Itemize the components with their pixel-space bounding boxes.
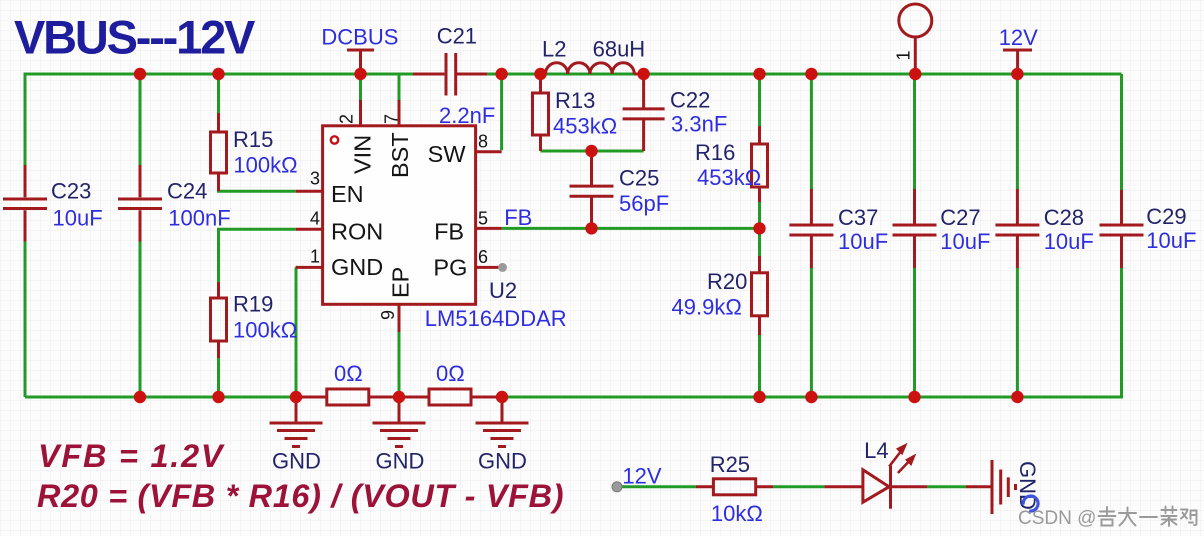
svg-text:8: 8 [478, 132, 488, 152]
svg-text:100kΩ: 100kΩ [233, 153, 297, 178]
svg-text:GND: GND [272, 449, 321, 474]
svg-text:10kΩ: 10kΩ [711, 501, 763, 526]
svg-text:7: 7 [382, 114, 402, 124]
svg-text:EN: EN [331, 181, 364, 207]
svg-text:2: 2 [337, 114, 357, 124]
svg-text:C28: C28 [1044, 205, 1084, 230]
svg-text:C37: C37 [838, 205, 878, 230]
svg-text:1: 1 [894, 50, 914, 60]
svg-text:PG: PG [433, 255, 467, 281]
svg-text:C22: C22 [670, 88, 710, 113]
svg-text:C21: C21 [437, 24, 477, 49]
svg-text:EP: EP [388, 267, 414, 298]
svg-text:56pF: 56pF [619, 191, 669, 216]
svg-text:2.2nF: 2.2nF [439, 103, 495, 128]
svg-text:49.9kΩ: 49.9kΩ [672, 295, 742, 320]
svg-text:C24: C24 [167, 179, 207, 204]
svg-text:453kΩ: 453kΩ [697, 165, 761, 190]
svg-text:U2: U2 [489, 278, 517, 303]
svg-text:BST: BST [387, 132, 413, 178]
svg-text:GND: GND [1015, 461, 1040, 510]
svg-text:100kΩ: 100kΩ [233, 318, 297, 343]
svg-text:1: 1 [310, 246, 320, 266]
svg-text:C23: C23 [51, 179, 91, 204]
svg-text:10uF: 10uF [940, 229, 990, 254]
svg-text:VFB = 1.2V: VFB = 1.2V [38, 438, 225, 474]
svg-text:DCBUS: DCBUS [321, 25, 398, 50]
svg-text:C25: C25 [619, 166, 659, 191]
svg-text:12V: 12V [622, 464, 661, 489]
svg-text:GND: GND [331, 254, 383, 280]
svg-text:GND: GND [376, 449, 425, 474]
svg-text:R19: R19 [233, 292, 273, 317]
svg-text:3: 3 [310, 169, 320, 189]
svg-text:R20: R20 [707, 269, 747, 294]
svg-text:SW: SW [428, 141, 467, 167]
svg-text:R25: R25 [710, 452, 750, 477]
svg-text:0Ω: 0Ω [436, 361, 465, 386]
svg-text:C29: C29 [1146, 204, 1186, 229]
svg-text:GND: GND [478, 449, 527, 474]
svg-text:0Ω: 0Ω [334, 361, 363, 386]
svg-text:VBUS---12V: VBUS---12V [14, 11, 256, 64]
svg-text:6: 6 [478, 247, 488, 267]
svg-text:10uF: 10uF [1044, 229, 1094, 254]
svg-text:R15: R15 [233, 127, 273, 152]
svg-text:L2: L2 [542, 37, 566, 62]
svg-text:5: 5 [478, 209, 488, 229]
svg-text:FB: FB [434, 219, 464, 245]
svg-text:10uF: 10uF [1146, 228, 1196, 253]
svg-text:3.3nF: 3.3nF [671, 112, 727, 137]
svg-text:10uF: 10uF [838, 229, 888, 254]
svg-text:LM5164DDAR: LM5164DDAR [425, 306, 567, 331]
svg-text:453kΩ: 453kΩ [553, 114, 617, 139]
svg-text:C27: C27 [940, 205, 980, 230]
svg-text:12V: 12V [999, 25, 1038, 50]
svg-text:10uF: 10uF [53, 206, 103, 231]
svg-text:R16: R16 [695, 140, 735, 165]
svg-text:4: 4 [310, 208, 320, 228]
svg-text:9: 9 [378, 310, 398, 320]
svg-text:R13: R13 [555, 88, 595, 113]
svg-text:100nF: 100nF [168, 206, 230, 231]
svg-text:VIN: VIN [350, 135, 376, 174]
svg-text:L4: L4 [864, 438, 888, 463]
svg-text:CSDN @: CSDN @ [1018, 508, 1096, 529]
svg-text:R20 = (VFB * R16) / (VOUT - VF: R20 = (VFB * R16) / (VOUT - VFB) [37, 478, 564, 514]
svg-text:RON: RON [331, 219, 383, 245]
svg-text:FB: FB [504, 205, 532, 230]
svg-text:68uH: 68uH [593, 37, 646, 62]
